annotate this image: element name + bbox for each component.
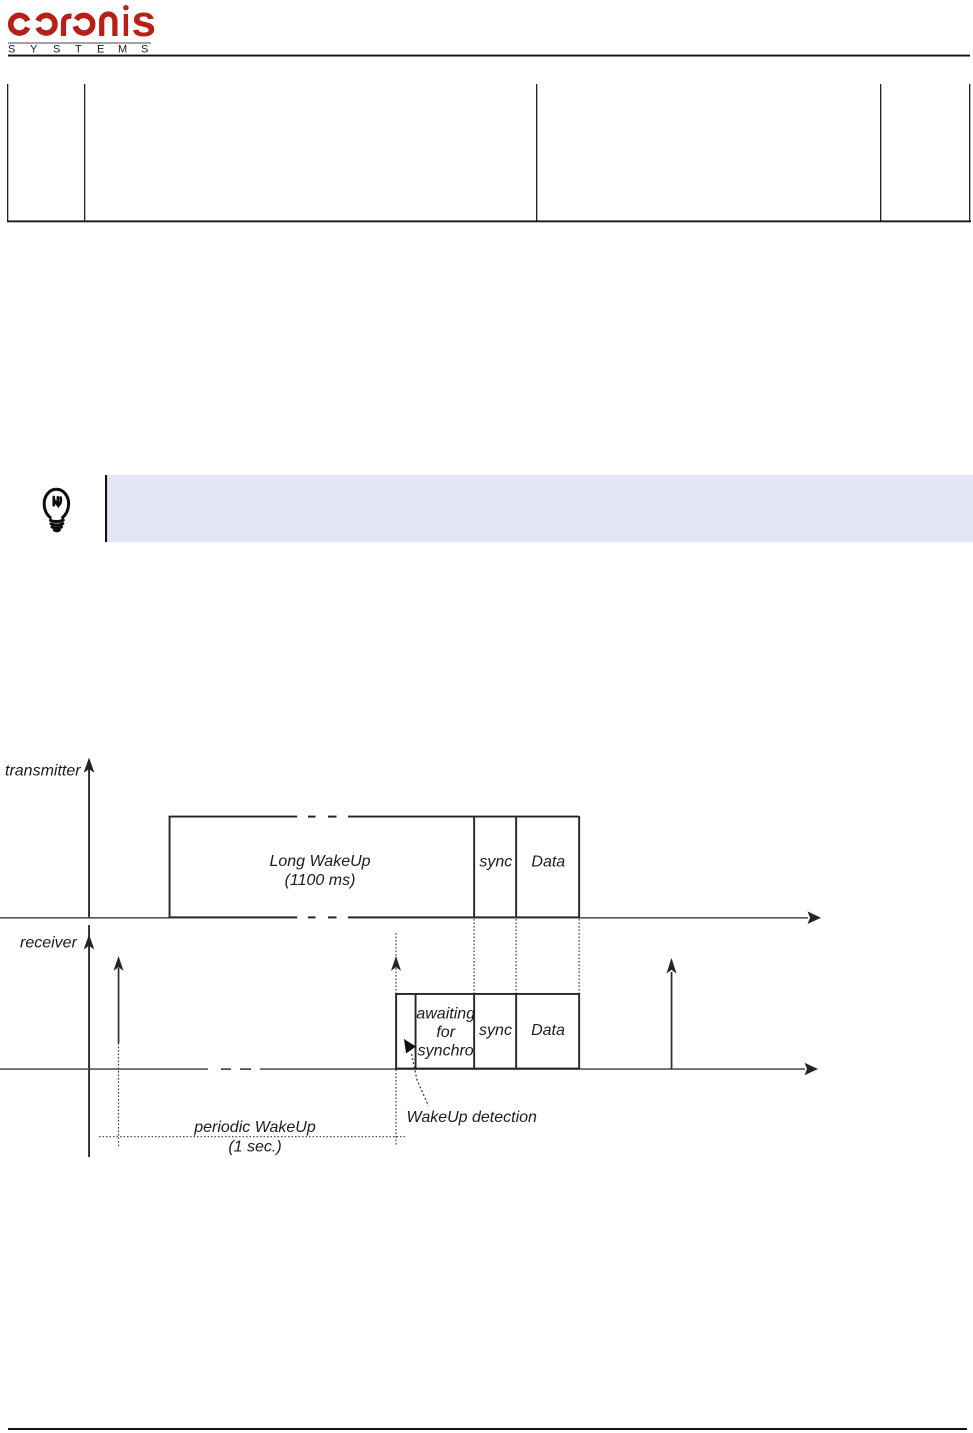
svg-text:Data: Data bbox=[531, 1022, 565, 1039]
Long WakeUp box left edge bbox=[169, 816, 171, 918]
receiver sync box left edge bbox=[473, 993, 475, 1069]
note box lavender background bbox=[107, 475, 973, 542]
table column line 5 bbox=[969, 84, 970, 221]
svg-text:(1100 ms): (1100 ms) bbox=[285, 872, 356, 889]
svg-text:Y: Y bbox=[30, 44, 38, 56]
receiver timeline thin right part bbox=[260, 1068, 805, 1070]
receiver arrow 3 shaft bbox=[671, 972, 673, 1069]
logo letter o2 bbox=[74, 14, 94, 34]
Long WakeUp box bottom edge with break bbox=[169, 916, 298, 918]
receiver narrow box left edge bbox=[395, 993, 397, 1069]
svg-text:WakeUp detection: WakeUp detection bbox=[407, 1109, 538, 1126]
receiver axis arrowhead bbox=[84, 935, 95, 950]
svg-text:S: S bbox=[141, 44, 148, 56]
receiver axis line bbox=[88, 925, 90, 1157]
header rule bbox=[8, 55, 970, 57]
svg-text:Data: Data bbox=[531, 854, 565, 871]
svg-text:S: S bbox=[8, 44, 15, 56]
receiver arrow 3 head bbox=[667, 958, 677, 974]
periodic WakeUp dotted horizontal bbox=[99, 1136, 407, 1138]
receiver periodic arrow 1 shaft bbox=[118, 968, 120, 1043]
receiver timeline break dashes bbox=[221, 1068, 231, 1070]
sync/Data divider (transmitter) bbox=[515, 816, 517, 918]
lightbulb icon bbox=[44, 489, 68, 530]
svg-text:(1 sec.): (1 sec.) bbox=[228, 1139, 281, 1156]
table column line 3 bbox=[536, 84, 537, 221]
svg-text:awaiting: awaiting bbox=[416, 1006, 475, 1023]
logo thin underline bbox=[8, 42, 151, 43]
svg-text:sync: sync bbox=[479, 854, 512, 871]
dotted vertical from sync/Data divider bbox=[515, 919, 517, 993]
logo letter open-o bbox=[38, 15, 55, 33]
top edge break dashes bbox=[308, 816, 316, 818]
svg-text:Long WakeUp: Long WakeUp bbox=[269, 853, 370, 870]
svg-text:S: S bbox=[53, 44, 60, 56]
svg-text:T: T bbox=[75, 44, 82, 56]
logo i dot bbox=[123, 5, 128, 10]
transmitter timeline thin right part bbox=[579, 917, 808, 919]
receiver arrow 1 dotted continuation bbox=[118, 1043, 120, 1146]
Long WakeUp box top edge with break bbox=[169, 816, 298, 818]
svg-text:synchro: synchro bbox=[418, 1043, 474, 1060]
SYSTEMS lettering bbox=[8, 44, 148, 56]
Data box top edge (transmitter sync+data) bbox=[473, 816, 579, 818]
svg-text:E: E bbox=[97, 44, 104, 56]
table column line 1 bbox=[7, 84, 8, 221]
Data box right edge (transmitter) bbox=[578, 816, 580, 918]
long dotted vertical at wakeup detection bbox=[395, 933, 397, 1146]
logo letter i bbox=[124, 14, 128, 36]
receiver sync/Data divider bbox=[515, 993, 517, 1069]
transmitter axis arrowhead bbox=[84, 758, 95, 773]
svg-text:receiver: receiver bbox=[20, 935, 78, 952]
logo letter c bbox=[11, 15, 28, 33]
svg-text:transmitter: transmitter bbox=[5, 763, 81, 780]
receiver timeline thin left part bbox=[0, 1068, 208, 1070]
table bottom border bbox=[7, 220, 971, 222]
dotted leader to WakeUp detection label bbox=[412, 1054, 429, 1106]
receiver periodic arrow 1 head bbox=[114, 956, 124, 971]
footer rule bbox=[8, 1428, 967, 1430]
table column line 2 bbox=[84, 84, 85, 221]
logo coronis (red wordmark) bbox=[11, 14, 126, 36]
table column line 4 bbox=[880, 84, 881, 221]
svg-text:periodic WakeUp: periodic WakeUp bbox=[193, 1119, 316, 1136]
receiver timeline arrowhead bbox=[805, 1063, 819, 1076]
svg-text:sync: sync bbox=[479, 1022, 512, 1039]
receiver boxes bottom dark edge bbox=[395, 1068, 579, 1070]
sync box left edge (transmitter) bbox=[473, 816, 475, 918]
transmitter timeline thin left part bbox=[0, 917, 169, 919]
svg-text:M: M bbox=[118, 44, 127, 56]
awaiting box left edge bbox=[415, 993, 417, 1069]
svg-text:for: for bbox=[436, 1024, 455, 1041]
receiver Data right edge bbox=[578, 993, 580, 1069]
receiver boxes top edge bbox=[395, 993, 579, 995]
bottom edge break dashes bbox=[308, 916, 316, 918]
bulb filament bbox=[54, 497, 61, 505]
transmitter timeline arrowhead bbox=[808, 911, 822, 924]
dotted vertical from Data right edge bbox=[578, 919, 580, 993]
logo letter n bbox=[102, 14, 115, 36]
svg-text:s: s bbox=[132, 0, 156, 46]
note box left black border bbox=[105, 475, 107, 542]
receiver arrow 2 head (on dotted line) bbox=[391, 956, 401, 971]
transmitter axis line bbox=[88, 769, 90, 918]
wakeup detection cursor triangle bbox=[404, 1039, 416, 1054]
dotted vertical from sync left edge bbox=[473, 919, 475, 993]
logo letter r bbox=[64, 16, 72, 36]
